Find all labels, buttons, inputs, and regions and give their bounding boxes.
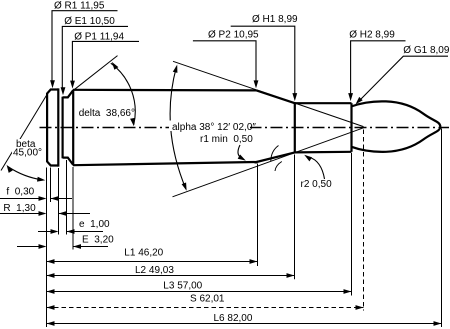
extension mouth L3 bbox=[351, 153, 353, 296]
leader P1 bbox=[72, 41, 139, 82]
leader H1 bbox=[231, 26, 295, 94]
svg-text:r2 0,50: r2 0,50 bbox=[301, 179, 333, 190]
svg-text:Ø G1 8,09: Ø G1 8,09 bbox=[403, 45, 450, 56]
white backing for beta label bbox=[12, 139, 44, 157]
beta angle arc with arrows bbox=[8, 167, 43, 181]
shoulder radius tick 2 bbox=[275, 162, 282, 172]
dimension L1 46,20 bbox=[47, 261, 258, 263]
shoulder radius tick 1 bbox=[271, 146, 279, 162]
svg-text:r1 min 0,50: r1 min 0,50 bbox=[200, 134, 253, 145]
dimension f 0,30 bbox=[0, 198, 39, 200]
extractor groove top edge and ramp to body bbox=[63, 90, 74, 97]
neck top edge bbox=[295, 102, 352, 104]
dimension E 3,20 bbox=[17, 246, 39, 248]
body start vertical line (P1 plane) bbox=[72, 90, 74, 165]
case mouth vertical edge bbox=[350, 103, 352, 152]
extension neck L2 bbox=[294, 155, 296, 280]
shoulder bottom edge bbox=[257, 152, 295, 162]
extension shoulder L1 bbox=[257, 164, 259, 267]
svg-text:L6 82,00: L6 82,00 bbox=[214, 313, 253, 324]
dimension L2 49,03 bbox=[47, 275, 295, 277]
svg-text:Ø R1 11,95: Ø R1 11,95 bbox=[54, 0, 105, 11]
svg-text:delta 38,66°: delta 38,66° bbox=[79, 108, 135, 119]
cartridge case rim (left face with 45-deg bevels) bbox=[47, 90, 58, 166]
extension S (dashed) bbox=[363, 130, 365, 311]
svg-text:f 0,30: f 0,30 bbox=[6, 187, 34, 198]
leader R1 bbox=[52, 11, 118, 82]
dimension R 1,30 bbox=[0, 213, 39, 215]
delta taper line bbox=[74, 56, 118, 90]
svg-text:Ø H1 8,99: Ø H1 8,99 bbox=[252, 14, 298, 25]
extension f bbox=[50, 168, 52, 203]
svg-text:alpha 38° 12′ 02,0″: alpha 38° 12′ 02,0″ bbox=[172, 122, 256, 133]
svg-text:Ø P1 11,94: Ø P1 11,94 bbox=[74, 31, 124, 42]
centerline (axis, dash-dot) bbox=[40, 127, 450, 129]
extension rim rear (R,e) bbox=[58, 168, 60, 235]
svg-text:R 1,30: R 1,30 bbox=[3, 203, 36, 214]
leader G1 bbox=[361, 56, 449, 99]
svg-text:Ø P2 10,95: Ø P2 10,95 bbox=[208, 30, 259, 41]
dimension L3 57,00 bbox=[47, 291, 352, 293]
alpha cone top line (to intersection point S) bbox=[173, 61, 364, 126]
svg-text:L2 49,03: L2 49,03 bbox=[135, 265, 174, 276]
leader P2 bbox=[193, 41, 256, 82]
leader E1 bbox=[62, 26, 128, 88]
dimension S 62,01 (dashed) bbox=[47, 307, 364, 309]
svg-text:45,00°: 45,00° bbox=[13, 148, 42, 159]
svg-text:L3 57,00: L3 57,00 bbox=[163, 280, 202, 291]
delta angle arc with arrows bbox=[111, 63, 135, 124]
case body top edge (P1 to P2) bbox=[73, 89, 257, 92]
neck start vertical line H1 bbox=[294, 102, 296, 153]
svg-text:E 3,20: E 3,20 bbox=[82, 235, 114, 246]
alpha cone bottom line (to intersection point S) bbox=[173, 128, 364, 197]
neck bottom edge bbox=[295, 151, 352, 154]
white backing for alpha label bbox=[169, 121, 250, 132]
beta bevel line bbox=[1, 92, 49, 171]
dimension L6 82,00 bbox=[47, 323, 442, 325]
dimension e 1,00 bbox=[38, 231, 51, 233]
extension base datum bbox=[46, 168, 48, 328]
extension head E bbox=[72, 167, 74, 250]
extension bullet tip L6 bbox=[441, 129, 443, 328]
extractor groove left wall bbox=[61, 97, 63, 159]
svg-text:S 62,01: S 62,01 bbox=[190, 294, 225, 305]
case body bottom edge bbox=[73, 162, 257, 165]
shoulder top edge bbox=[257, 90, 295, 103]
leader r1 bbox=[238, 145, 241, 158]
svg-text:e 1,00: e 1,00 bbox=[79, 219, 110, 230]
rim rear face bbox=[57, 88, 59, 166]
leader H2 bbox=[351, 41, 406, 95]
bullet ogive outline bbox=[352, 101, 441, 151]
svg-text:L1 46,20: L1 46,20 bbox=[124, 248, 163, 259]
extension groove rear (e) bbox=[66, 160, 68, 235]
leader r2 bbox=[309, 157, 325, 179]
svg-text:Ø H2 8,99: Ø H2 8,99 bbox=[349, 30, 395, 41]
extractor groove bottom edge and ramp to body bbox=[63, 158, 74, 165]
svg-text:Ø E1 10,50: Ø E1 10,50 bbox=[64, 16, 115, 27]
alpha angle arc with arrows bbox=[170, 67, 186, 190]
